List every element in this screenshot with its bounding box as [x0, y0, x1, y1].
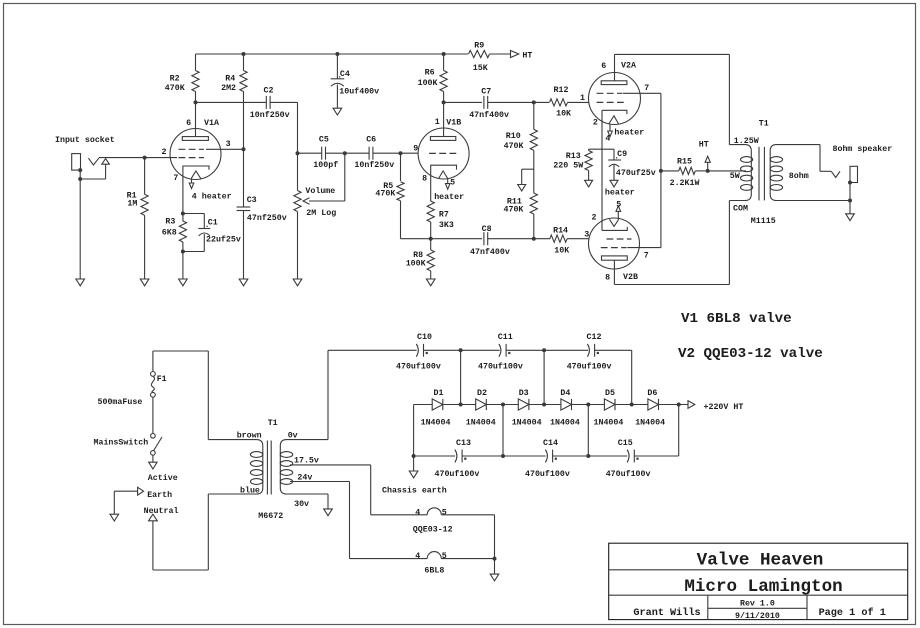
V2B grid pin 7 row [601, 248, 661, 261]
svg-text:V2 QQE03-12 valve: V2 QQE03-12 valve [678, 346, 823, 362]
svg-text:470uf100v: 470uf100v [435, 469, 480, 479]
wire C13 to C14 [462, 455, 545, 457]
wire R4 to C3 [243, 149, 245, 207]
svg-text:470uf100v: 470uf100v [478, 362, 523, 372]
node C10 C11 [459, 348, 463, 352]
svg-text:47nf400v: 47nf400v [470, 247, 510, 257]
svg-text:R10: R10 [506, 132, 521, 141]
resistor R9 [469, 42, 511, 74]
svg-text:M6672: M6672 [258, 512, 283, 521]
transformer T1 core [759, 147, 764, 201]
wire 17.5v heater row [371, 514, 428, 516]
ground R13 [585, 180, 593, 187]
tap 24v [290, 473, 350, 558]
svg-text:7: 7 [173, 174, 178, 183]
title revision [740, 600, 775, 609]
transformer T1 mains core [267, 441, 271, 495]
transformer T1 secondary [751, 145, 850, 226]
wire C13 left [414, 455, 456, 457]
wire C2 line [196, 101, 267, 103]
wire C2 to volume [270, 102, 297, 153]
V1B cathode pin 8 [422, 165, 456, 201]
wire C5 to C6 [326, 152, 370, 154]
svg-text:Neutral: Neutral [144, 506, 179, 516]
svg-text:2: 2 [592, 213, 597, 222]
svg-text:V2A: V2A [621, 62, 636, 71]
node top rail R6 [242, 52, 446, 56]
resistor R13 [553, 149, 592, 180]
wire riser D4D5 to C14C15 [587, 405, 589, 457]
V1A grid pin 2 [162, 148, 205, 158]
wire C10 to C11 [424, 349, 500, 351]
svg-text:3K3: 3K3 [439, 221, 454, 230]
capacitor C9 [608, 149, 655, 180]
svg-text:Earth: Earth [147, 490, 172, 500]
V1A plate pin 6 [182, 102, 219, 140]
svg-text:C15: C15 [618, 439, 633, 448]
svg-text:30v: 30v [294, 500, 309, 509]
wire heater return to ground [494, 559, 496, 575]
svg-text:+220V HT: +220V HT [704, 403, 744, 412]
svg-text:470K: 470K [165, 84, 185, 93]
node C13 C14 [501, 454, 505, 458]
resistor R6 [418, 54, 448, 102]
svg-text:47nf250v: 47nf250v [247, 213, 287, 223]
capacitor C11 [478, 333, 523, 372]
node speaker return [848, 199, 852, 203]
speaker jack socket [850, 166, 858, 182]
title page [819, 607, 886, 619]
svg-text:1: 1 [580, 94, 585, 103]
svg-text:8: 8 [422, 175, 427, 184]
V2B heater pin 5 arrow [592, 187, 635, 222]
fuse F1 [98, 372, 167, 408]
V1B heater pin 5 arrow [434, 178, 464, 202]
wire R7 to C8 [431, 238, 482, 240]
title Micro Lamington [684, 577, 842, 597]
node wiper junction [343, 151, 347, 155]
ground earth [110, 514, 119, 521]
svg-text:.: . [205, 221, 210, 230]
svg-text:.: . [614, 153, 619, 162]
capacitor C1 [183, 214, 241, 252]
resistor R14 [550, 226, 589, 255]
wire D3 to D4 [529, 404, 561, 406]
wire C3 to ground [243, 211, 245, 280]
ground speaker [846, 214, 855, 221]
HT arrow up [699, 140, 711, 171]
svg-text:1N4004: 1N4004 [421, 418, 451, 427]
svg-text:2: 2 [593, 119, 598, 128]
title author [633, 607, 700, 619]
node pin3 junction [242, 147, 246, 151]
capacitor C5 [313, 135, 338, 170]
node R11 bottom [532, 237, 536, 241]
ground C3 [239, 279, 248, 286]
svg-text:10K: 10K [554, 246, 569, 255]
V1A grid pin 3 [179, 140, 244, 149]
wire D1 to D2 [443, 404, 476, 406]
svg-text:R4: R4 [225, 75, 235, 84]
svg-text:1: 1 [435, 118, 440, 127]
capacitor C4 [331, 54, 380, 108]
svg-text:470K: 470K [504, 205, 524, 214]
diode D2 [466, 389, 496, 428]
diode D6 [635, 389, 665, 428]
node R10 top [532, 100, 536, 104]
svg-text:4 heater: 4 heater [192, 191, 232, 201]
svg-text:R15: R15 [677, 158, 692, 167]
transformer T1 primary [729, 120, 768, 214]
pot wiper [303, 153, 345, 204]
wire riser C10C11 to diodes [460, 350, 462, 404]
wire C6 to V1B [373, 152, 418, 154]
node D3 D4 [542, 403, 546, 407]
svg-text:C3: C3 [247, 196, 257, 205]
resistor R8 [406, 239, 435, 279]
node jack sleeve [78, 168, 82, 172]
resistor R11 [504, 193, 538, 239]
wire D2 to D3 [486, 404, 518, 406]
svg-text:8ohm speaker: 8ohm speaker [833, 144, 893, 154]
svg-text:R6: R6 [425, 69, 435, 78]
wire D4 to D5 [572, 404, 605, 406]
svg-text:C5: C5 [319, 135, 329, 144]
svg-text:T1: T1 [268, 419, 278, 428]
capacitor C8 [470, 225, 510, 257]
svg-text:1N4004: 1N4004 [594, 418, 624, 427]
wire C8 to R14 [488, 238, 550, 240]
svg-text:5: 5 [450, 178, 455, 187]
svg-text:2M2: 2M2 [221, 84, 236, 93]
wire neutral bottom [153, 494, 208, 570]
svg-text:C6: C6 [366, 135, 376, 144]
svg-text:1N4004: 1N4004 [512, 418, 542, 427]
ground R3 [179, 279, 188, 286]
switch MainsSwitch [94, 434, 163, 456]
svg-text:V1B: V1B [446, 119, 461, 128]
wire 0v to C10 [328, 350, 417, 439]
resistor R5 [375, 153, 430, 239]
svg-text:2: 2 [162, 148, 167, 157]
ground input [76, 279, 85, 286]
tap 17.5v [290, 457, 371, 515]
svg-text:1N4004: 1N4004 [635, 418, 665, 427]
svg-text:47nf400v: 47nf400v [469, 110, 509, 120]
V2A plate pin 6 [601, 62, 636, 85]
svg-text:5W: 5W [730, 172, 740, 181]
svg-text:C2: C2 [264, 87, 274, 96]
svg-text:heater: heater [614, 128, 644, 138]
svg-text:3: 3 [226, 140, 231, 149]
svg-text:100pf: 100pf [313, 160, 338, 170]
wire jack to ground [79, 179, 81, 279]
svg-text:6: 6 [186, 119, 191, 128]
wire cathode tap [589, 148, 614, 150]
node V1B plate junction [442, 100, 446, 104]
svg-text:T1: T1 [759, 120, 769, 129]
ground tap R10 R11 [518, 169, 534, 191]
node cathode bottom [181, 250, 185, 254]
node heater return [493, 557, 497, 561]
wire V1B plate to C7 [444, 101, 482, 103]
note V1 valve type [681, 311, 792, 327]
svg-text:R2: R2 [170, 75, 180, 84]
capacitor C3 [237, 196, 287, 223]
V1B heater filament [439, 171, 448, 179]
svg-text:8ohm: 8ohm [789, 171, 809, 181]
svg-text:17.5v: 17.5v [294, 457, 319, 466]
wire D5 to D6 [615, 404, 648, 406]
node C4 top [335, 52, 339, 56]
svg-text:470K: 470K [504, 142, 524, 151]
title block frame [609, 543, 908, 619]
svg-text:heater: heater [605, 187, 635, 197]
svg-text:1M: 1M [127, 200, 137, 209]
capacitor C15 [606, 439, 651, 479]
capacitor C12 [567, 333, 612, 372]
svg-text:D2: D2 [477, 389, 487, 398]
svg-text:COM: COM [733, 205, 748, 214]
node D6 output [677, 403, 681, 407]
wire jack sleeve to common [849, 183, 851, 202]
resistor R4 [221, 54, 247, 149]
valve V1B envelope [418, 128, 469, 179]
valve V1A envelope [170, 129, 221, 180]
svg-text:Valve Heaven: Valve Heaven [697, 551, 824, 571]
wire HT top rail [196, 53, 469, 55]
node HT feed [706, 169, 710, 173]
6BL8 heater loop [415, 552, 447, 576]
svg-text:6: 6 [601, 62, 606, 71]
svg-text:5: 5 [616, 200, 621, 209]
wire C11 to C12 [506, 349, 588, 351]
node R15 tap [659, 169, 663, 173]
diode D1 [421, 389, 451, 428]
svg-text:HT: HT [699, 140, 709, 149]
svg-text:D4: D4 [560, 389, 570, 398]
node D1 D2 [459, 403, 463, 407]
svg-text:D1: D1 [434, 389, 444, 398]
node D5 D6 [630, 403, 634, 407]
svg-text:4: 4 [605, 134, 610, 143]
svg-text:Volume: Volume [305, 186, 335, 196]
svg-text:100K: 100K [418, 79, 438, 88]
svg-text:10uf400v: 10uf400v [339, 87, 379, 97]
svg-text:D3: D3 [519, 389, 529, 398]
arrow +220V HT [688, 401, 743, 412]
svg-text:D6: D6 [647, 389, 657, 398]
svg-text:brown: brown [237, 431, 262, 441]
svg-text:1N4004: 1N4004 [550, 418, 580, 427]
svg-text:10nf250v: 10nf250v [250, 110, 290, 120]
transformer T1 mains primary [208, 419, 277, 496]
V2B grid pin 3 row [584, 231, 631, 240]
svg-text:470uf100v: 470uf100v [396, 362, 441, 372]
V1B plate pin 1 [430, 102, 461, 140]
svg-text:0v: 0v [288, 432, 298, 441]
svg-text:2.2K1W: 2.2K1W [670, 179, 700, 188]
svg-text:15K: 15K [473, 64, 488, 73]
svg-text:6K8: 6K8 [162, 229, 177, 238]
input tip V [88, 158, 98, 165]
node D2 D3 [501, 403, 505, 407]
resistor R2 [165, 54, 199, 102]
node R5 top [399, 151, 403, 155]
V2B plate pin 8 [602, 256, 638, 285]
ground heater return [490, 574, 499, 581]
resistor R3 [162, 214, 187, 252]
svg-text:HT: HT [522, 52, 532, 61]
svg-text:Input socket: Input socket [55, 135, 115, 145]
svg-text:R7: R7 [439, 211, 449, 220]
node jack bottom [848, 181, 852, 185]
svg-text:4: 4 [415, 508, 420, 517]
svg-text:C11: C11 [498, 333, 513, 342]
wire C12 right [595, 350, 632, 404]
resistor R1 [127, 158, 149, 279]
svg-text:QQE03-12: QQE03-12 [413, 526, 453, 535]
V2B cathode pin 2 [602, 227, 627, 231]
svg-text:heater: heater [434, 192, 464, 202]
svg-text:Micro Lamington: Micro Lamington [684, 577, 842, 597]
svg-text:5: 5 [442, 552, 447, 561]
wire secondary to speaker [820, 145, 831, 172]
node HT arrow [511, 51, 533, 61]
diode D5 [594, 389, 624, 428]
svg-text:9: 9 [413, 145, 418, 154]
svg-text:F1: F1 [157, 375, 167, 384]
title date [735, 611, 780, 621]
wire input signal [99, 157, 177, 159]
svg-text:470uf100v: 470uf100v [606, 469, 651, 479]
svg-text:Page 1 of 1: Page 1 of 1 [819, 607, 886, 619]
svg-text:8: 8 [605, 274, 610, 283]
wire to C5 [298, 152, 322, 154]
svg-text:Chassis earth: Chassis earth [382, 486, 447, 496]
V1A heater filament [191, 171, 201, 179]
svg-text:V1A: V1A [204, 119, 219, 128]
svg-text:3: 3 [584, 231, 589, 240]
wire chassis earth drop [412, 405, 416, 472]
svg-text:R9: R9 [474, 42, 484, 51]
Neutral arrow [144, 506, 179, 570]
resistor R12 [550, 86, 589, 119]
svg-text:C13: C13 [456, 439, 471, 448]
node cathode top [181, 212, 185, 216]
ground C4 [333, 108, 342, 115]
capacitor C13 [435, 439, 480, 479]
wire C7 to R12 [488, 101, 549, 103]
svg-text:blue: blue [240, 486, 260, 496]
svg-text:220 5W: 220 5W [553, 161, 583, 170]
svg-text:22uf25v: 22uf25v [206, 235, 241, 245]
node cathode R8 junction [429, 237, 433, 241]
wire V2B plate to transformer [614, 201, 729, 285]
V2A heater filament [609, 116, 619, 124]
wire C14 to C15 [553, 455, 628, 457]
node plate V1A junction [194, 100, 198, 104]
wire C15 right [634, 405, 678, 457]
node C5 junction [296, 151, 300, 155]
capacitor C14 [525, 439, 570, 479]
svg-text:R3: R3 [165, 218, 175, 227]
svg-text:470uf25v: 470uf25v [616, 168, 656, 178]
input socket jack [55, 135, 115, 170]
node R1 top [143, 156, 147, 160]
wire jack sleeve [78, 164, 105, 181]
V1B grid pin 9 [413, 145, 457, 154]
resistor R10 [504, 102, 538, 193]
svg-text:9/11/2010: 9/11/2010 [735, 611, 780, 621]
ground chassis earth [382, 471, 447, 496]
Earth arrow [114, 487, 172, 514]
speaker jack V [831, 144, 892, 178]
valve V2A envelope [589, 73, 641, 125]
svg-text:500maFuse: 500maFuse [98, 398, 143, 407]
svg-text:4: 4 [415, 552, 420, 561]
svg-text:100K: 100K [406, 259, 426, 268]
wire 30v [294, 494, 328, 509]
svg-text:V2B: V2B [623, 273, 638, 282]
resistor R15 [661, 158, 708, 188]
diode D3 [512, 389, 542, 428]
wire V2A plate rail [615, 54, 730, 144]
wire HT to 5W tap [708, 171, 746, 181]
capacitor C6 [354, 135, 394, 170]
svg-text:6BL8: 6BL8 [424, 567, 444, 576]
svg-text:2M Log: 2M Log [306, 209, 336, 218]
V2B heater filament [609, 219, 618, 226]
svg-text:Active: Active [148, 473, 178, 483]
wire diode row start [414, 404, 433, 406]
V2A grid pin 1 row [580, 94, 625, 103]
svg-text:7: 7 [644, 251, 649, 260]
svg-text:C10: C10 [417, 333, 432, 342]
ground R8 [426, 279, 435, 286]
wire 6BL8 row right [441, 558, 494, 560]
diode D4 [550, 389, 580, 428]
transformer T1 mains secondary [258, 432, 328, 522]
wire active top [153, 351, 208, 440]
wire fuse to switch [152, 397, 154, 433]
resistor R7 [427, 201, 454, 239]
capacitor C10 [396, 333, 441, 372]
wire riser C11C12 to diodes [543, 350, 545, 404]
svg-text:C14: C14 [543, 439, 558, 448]
svg-text:.: . [337, 72, 342, 81]
svg-text:7: 7 [644, 84, 649, 93]
wire pin7 bus [660, 93, 662, 247]
svg-text:10nf250v: 10nf250v [354, 160, 394, 170]
V1A heater pin 4 arrow [189, 180, 231, 202]
svg-text:1.25W: 1.25W [734, 137, 759, 146]
svg-text:470K: 470K [375, 190, 395, 199]
wire to ground speaker [849, 201, 851, 214]
V2A heater pin 4 arrow [605, 125, 644, 144]
V1A cathode pin 7 [173, 166, 209, 214]
svg-text:D5: D5 [605, 389, 615, 398]
ground R1 [140, 279, 149, 286]
svg-text:10K: 10K [556, 110, 571, 119]
svg-text:1N4004: 1N4004 [466, 418, 496, 427]
note V2 valve type [678, 346, 823, 362]
svg-text:5: 5 [442, 508, 447, 517]
node C11 C12 [542, 348, 546, 352]
svg-text:R14: R14 [553, 226, 568, 235]
svg-text:V1 6BL8 valve: V1 6BL8 valve [681, 311, 792, 327]
ground volume [293, 279, 302, 286]
